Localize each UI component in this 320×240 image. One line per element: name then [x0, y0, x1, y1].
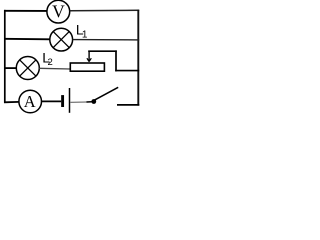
svg-text:1: 1: [82, 30, 88, 41]
switch pivot dot: [91, 99, 96, 104]
wire row2 left to lamp L1: [4, 38, 50, 41]
switch lever: [94, 87, 118, 100]
rheostat R box: [70, 63, 104, 71]
svg-text:V: V: [52, 2, 65, 22]
wire lamp L2 to rheostat: [39, 67, 70, 70]
battery long plate (positive): [69, 88, 71, 113]
wire left vertical: [4, 10, 6, 103]
lamp L2 cross: [20, 60, 36, 76]
wire battery to switch pivot: [70, 101, 87, 103]
lamp L1 circle: [50, 28, 73, 51]
svg-text:A: A: [24, 92, 36, 111]
wire slider right vertical: [115, 50, 117, 71]
wire bottom left corner to ammeter: [4, 101, 19, 103]
lamp L1 cross: [53, 32, 69, 48]
rheostat slider arrowhead: [87, 58, 91, 62]
wire switch fixed side to right vertical: [117, 104, 139, 106]
wire top left to voltmeter: [4, 10, 47, 12]
rheostat slider arrow stem: [88, 51, 90, 61]
svg-text:2: 2: [48, 57, 53, 68]
ammeter circle: [19, 90, 42, 113]
wire voltmeter to right vertical: [70, 9, 140, 12]
wire right vertical: [137, 10, 139, 106]
wire slider bottom horizontal to right vertical: [115, 70, 139, 72]
wire lamp L1 to right vertical: [73, 39, 140, 41]
voltmeter circle: [47, 0, 70, 23]
wire to switch pivot (dark part): [87, 101, 93, 103]
wire ammeter to battery: [42, 100, 62, 102]
wire row3 left to lamp L2: [4, 67, 17, 69]
wire slider top horizontal: [88, 50, 117, 52]
lamp L2 circle: [16, 57, 39, 80]
battery short plate (negative): [61, 95, 64, 107]
